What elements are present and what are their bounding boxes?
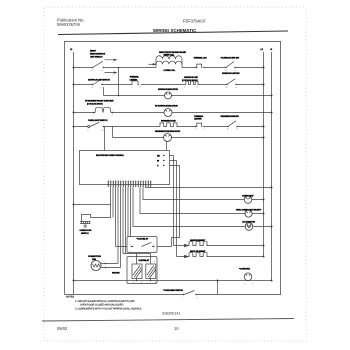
- wire bake element to L2: [207, 245, 264, 247]
- drop into EOC: [166, 142, 168, 151]
- wires lamps to L2 and N: [252, 200, 272, 227]
- svg-text:1. CIRCUIT SHOWN WITH ALL CON: 1. CIRCUIT SHOWN WITH ALL CONTROLS SET T…: [75, 300, 135, 303]
- wire EOC pin to lock motor: [133, 187, 246, 227]
- door switch staircase: [82, 205, 111, 222]
- svg-text:RIGHT: RIGHT: [90, 50, 97, 53]
- wire EOC output W to broil element: [176, 161, 178, 257]
- wires relay A in/out: [116, 246, 172, 248]
- row 4 wire y=112.7: [74, 112, 272, 114]
- svg-text:3: 3: [184, 86, 185, 89]
- svg-text:3: 3: [146, 260, 147, 263]
- svg-text:FEF379ACF: FEF379ACF: [183, 19, 206, 24]
- svg-text:UNIT SWITCH: UNIT SWITCH: [90, 56, 103, 59]
- svg-text:4: 4: [154, 250, 155, 253]
- relay B coil 2: [146, 264, 156, 279]
- L1 branch wire y=204.5: [74, 204, 111, 206]
- svg-text:* DLB RELAY: * DLB RELAY: [137, 237, 149, 240]
- svg-text:(2 COILS 1 EACH): (2 COILS 1 EACH): [87, 103, 103, 106]
- L1 bus: [73, 52, 75, 295]
- svg-text:2: 2: [154, 244, 155, 247]
- svg-text:3: 3: [130, 250, 131, 253]
- warmer zone switch blade: [228, 121, 236, 127]
- svg-text:1: 1: [132, 260, 133, 263]
- svg-text:THERMAL: THERMAL: [130, 76, 140, 79]
- fan motor lead wires: [101, 264, 121, 268]
- header rule: [58, 31, 288, 35]
- svg-text:RT REAR/RT FRONT SURF UNIT: RT REAR/RT FRONT SURF UNIT: [85, 100, 114, 103]
- ribbon wires descending: [111, 187, 131, 268]
- bake element feed arrow: [174, 244, 189, 246]
- EOC connector pins: [108, 181, 151, 187]
- junction dot vent row to bottom edge: [217, 280, 219, 282]
- oven vent fan symbol: [244, 273, 252, 281]
- notes block: [66, 296, 142, 311]
- svg-text:THERMAL LIM: THERMAL LIM: [194, 56, 207, 59]
- vent row to bottom edge connector: [217, 281, 219, 295]
- row 1 wire y=67.5: [74, 67, 157, 69]
- relay A box: [127, 237, 157, 253]
- svg-text:1: 1: [93, 114, 94, 117]
- svg-text:SPEC OVEN LIGHT RECEPT: SPEC OVEN LIGHT RECEPT: [236, 209, 262, 212]
- svg-text:2: 2: [112, 114, 113, 117]
- svg-text:1: 1: [130, 244, 131, 247]
- svg-text:ELECTRONIC OVEN CONTROL: ELECTRONIC OVEN CONTROL: [96, 154, 125, 157]
- svg-text:1: 1: [195, 127, 196, 130]
- svg-text:09/02: 09/02: [57, 326, 68, 331]
- EOC output arrows BK W V: [163, 155, 165, 166]
- svg-text:* SURFACE UNIT SW: * SURFACE UNIT SW: [221, 56, 240, 59]
- EOC connector pin dots P1-P18: [108, 181, 152, 182]
- svg-text:2: 2: [140, 86, 141, 89]
- wire EOC pin to oven light: [143, 187, 244, 200]
- junction dots on L1 bus: [73, 67, 75, 282]
- convection fan motor: [91, 261, 101, 271]
- switch SW3 blade: [93, 80, 101, 85]
- svg-text:1: 1: [182, 297, 183, 300]
- svg-text:OVEN LIGHT SWITCH: OVEN LIGHT SWITCH: [88, 119, 108, 122]
- switch SW1 blade: [93, 60, 115, 73]
- rt surface indicator lamp: [164, 109, 172, 117]
- svg-text:LIMITER: LIMITER: [194, 118, 202, 121]
- svg-text:FAN: FAN: [92, 258, 96, 261]
- special oven light receptacle: [245, 210, 252, 217]
- svg-text:8: 8: [155, 281, 156, 284]
- thermal limiter row1: [196, 64, 202, 67]
- svg-text:5: 5: [133, 281, 134, 284]
- svg-text:6: 6: [141, 281, 142, 284]
- wire EOC pin to N: [146, 186, 272, 189]
- svg-text:4: 4: [154, 260, 155, 263]
- svg-text:CONVECTION: CONVECTION: [88, 255, 101, 258]
- broil element feed arrow: [177, 255, 189, 257]
- switch pin letters: [88, 61, 254, 300]
- svg-text:WARMER ZONE SW: WARMER ZONE SW: [221, 115, 240, 118]
- svg-text:10: 10: [174, 326, 179, 331]
- wire to SW2: [182, 67, 264, 69]
- svg-text:OVEN DOOR CLOSED AND UNLOCKED.: OVEN DOOR CLOSED AND UNLOCKED.: [80, 304, 124, 307]
- faint page border: [44, 7, 306, 341]
- component name labels: [70, 48, 273, 292]
- schematic outer box (bottom edge has oven-door switch gap): [65, 42, 281, 295]
- svg-text:4: 4: [197, 86, 198, 89]
- fan motor winding zigzag: [93, 264, 101, 267]
- footer rule: [42, 319, 294, 322]
- svg-text:* OVEN VENT SWITCH: * OVEN VENT SWITCH: [163, 289, 183, 292]
- junction dots on N bus: [271, 95, 273, 282]
- svg-text:LIMITER: LIMITER: [130, 78, 138, 81]
- node vertical x=118: [118, 68, 120, 96]
- junction dots on L2 bus: [263, 67, 265, 258]
- switch SW1 contact arrows: [114, 59, 116, 73]
- svg-text:SWITCH: SWITCH: [81, 232, 89, 235]
- element feed arrow: [153, 64, 156, 65]
- row 5 wire y=126.3: [74, 126, 264, 128]
- lock motor: [245, 223, 253, 231]
- svg-text:BROIL ELEMENT: BROIL ELEMENT: [190, 250, 206, 253]
- drop from row2 to row3: [103, 87, 105, 96]
- switch SW2 blade: [226, 62, 234, 68]
- relay B coil top feed wires: [123, 254, 151, 265]
- svg-text:SURFACE UNIT SW: SURFACE UNIT SW: [222, 72, 240, 75]
- electronic oven control box: [80, 151, 170, 185]
- wire broil element to L2: [207, 256, 264, 258]
- svg-text:OUTER COIL: OUTER COIL: [164, 69, 176, 72]
- svg-text:BAKE ELEMENT: BAKE ELEMENT: [190, 239, 206, 242]
- relay B box: [127, 257, 157, 284]
- svg-text:RT SURFACE INDICATOR: RT SURFACE INDICATOR: [155, 105, 178, 108]
- svg-text:FAN SW: FAN SW: [112, 271, 120, 274]
- wire EOC output V to DLB relay: [172, 166, 180, 247]
- thermal limiter bump: [131, 81, 139, 85]
- EOC right-side exits: [170, 156, 180, 166]
- svg-text:REAR SURFACE: REAR SURFACE: [90, 53, 106, 56]
- bottom circuit wire y=282: [74, 280, 272, 282]
- branch down to EOC: [104, 127, 106, 151]
- svg-text:LOCK MOTOR: LOCK MOTOR: [242, 221, 256, 224]
- svg-text:1: 1: [244, 282, 245, 285]
- surface indicator lamp: [165, 92, 172, 99]
- wire EOC pin to receptacle: [140, 187, 246, 214]
- svg-text:2: 2: [197, 297, 198, 300]
- oven door switch blade on bottom edge: [184, 291, 195, 295]
- N bus: [271, 52, 273, 281]
- svg-text:1: 1: [113, 61, 114, 64]
- oven light switch: [88, 125, 90, 127]
- svg-text:OVEN LIGHT: OVEN LIGHT: [242, 195, 254, 198]
- oven light lamp: [244, 196, 252, 204]
- broil element: [188, 253, 208, 257]
- row 3 wire y=95.5 surface indicator: [104, 95, 272, 97]
- bake element: [188, 242, 208, 246]
- svg-text:2: 2: [204, 127, 205, 130]
- branch down to row 6: [112, 127, 114, 138]
- warmer thermal limiter bump: [196, 123, 202, 126]
- svg-text:SURFACE UNIT: SURFACE UNIT: [184, 76, 199, 79]
- relay B coil hatching: [133, 266, 156, 279]
- surface unit element 2: [185, 81, 199, 84]
- row 6 wire y=137.5: [113, 137, 264, 139]
- svg-text:1: 1: [131, 86, 132, 89]
- door plug component: [80, 222, 91, 228]
- rt rear surface unit bump: [94, 108, 113, 113]
- svg-text:2: 2: [113, 74, 114, 77]
- svg-text:5995376709: 5995376709: [57, 22, 80, 27]
- svg-text:SURFACE UNIT SWITCH: SURFACE UNIT SWITCH: [88, 79, 110, 82]
- svg-text:INNER COIL: INNER COIL: [164, 53, 176, 56]
- svg-text:WARMER ZONE INDICATOR: WARMER ZONE INDICATOR: [155, 130, 181, 133]
- svg-text:NOTES: NOTES: [66, 296, 74, 299]
- svg-text:316255141: 316255141: [162, 312, 180, 316]
- svg-text:2. COMPONENTS WITH ** DO NOT: 2. COMPONENTS WITH ** DO NOT APPEAR ON A…: [75, 308, 142, 311]
- svg-text:(2 COILS 1 EACH): (2 COILS 1 EACH): [182, 79, 198, 82]
- svg-text:OVEN DOOR: OVEN DOOR: [80, 229, 92, 232]
- svg-text:2: 2: [140, 260, 141, 263]
- switch and component terminal dots: [92, 67, 238, 295]
- svg-text:* OVEN FAN: * OVEN FAN: [239, 268, 250, 271]
- switch SW4 blade: [227, 79, 235, 85]
- svg-text:2: 2: [252, 282, 253, 285]
- relay B coil 1: [132, 264, 142, 279]
- surface unit element (double coil): [156, 56, 182, 68]
- wire EOC output BK to bake element: [173, 156, 175, 246]
- warmer zone element: [159, 123, 178, 127]
- warmer zone indicator lamp: [164, 134, 172, 142]
- svg-text:SURFACE INDICATOR: SURFACE INDICATOR: [158, 88, 178, 91]
- relay B coil bottom stubs: [137, 279, 151, 281]
- relay A contact blade: [132, 242, 155, 246]
- surface unit element outer coil: [156, 61, 182, 64]
- wire into element: [149, 63, 154, 65]
- svg-text:7: 7: [147, 281, 148, 284]
- row 2 wire y=84.5: [74, 84, 264, 86]
- svg-text:WARMER ZONE: WARMER ZONE: [161, 120, 176, 123]
- L2 bus: [263, 52, 265, 257]
